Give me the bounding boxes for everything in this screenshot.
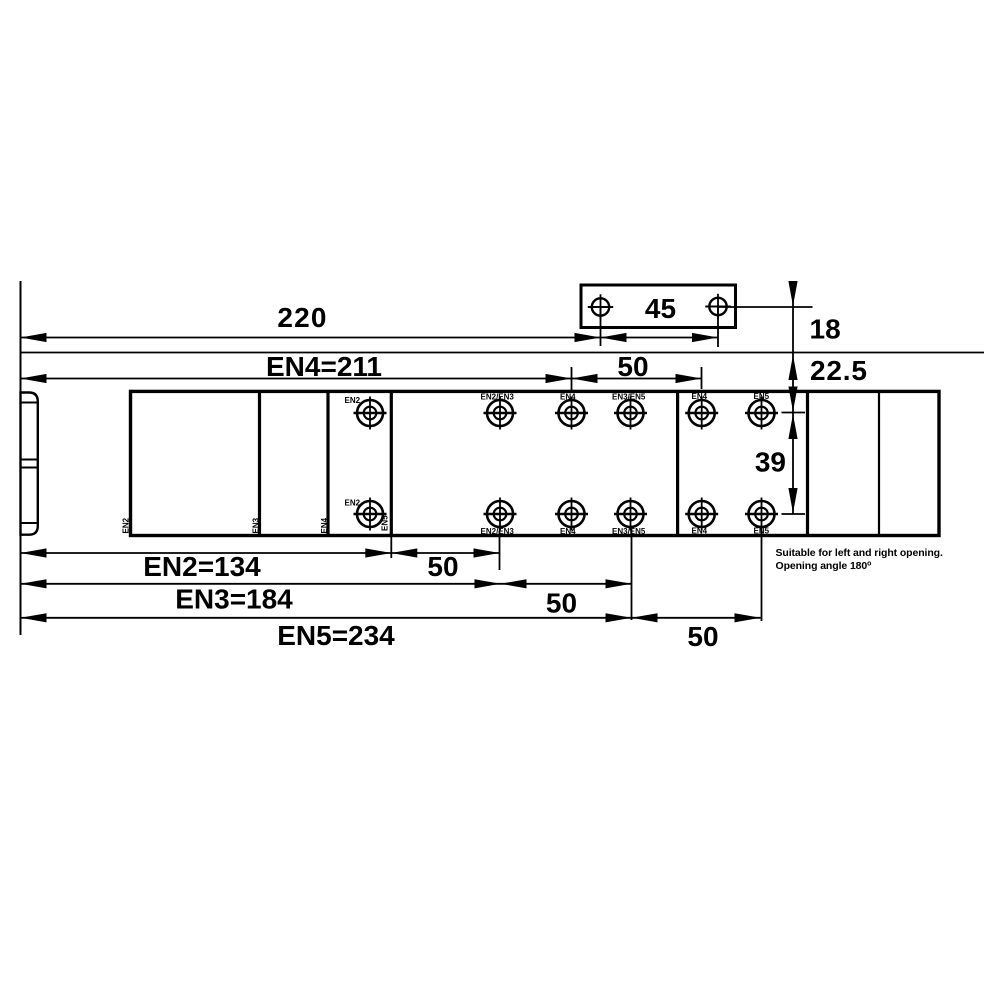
svg-text:EN3: EN3 <box>252 517 261 533</box>
bottom extension line EN5 divider <box>390 535 392 558</box>
tick bottom hole row <box>782 513 806 515</box>
vertical dimension line 18/22.5/39 <box>792 283 794 514</box>
arrow EN5 right <box>606 613 632 622</box>
extension line above plate col EN4b <box>701 367 703 389</box>
svg-text:EN2=134: EN2=134 <box>143 551 261 582</box>
bottom extension line col6 <box>761 529 763 621</box>
svg-text:EN2: EN2 <box>345 499 361 508</box>
label 22.5 <box>810 355 868 386</box>
tick top hole row <box>782 412 806 414</box>
door leaf profile left <box>21 393 38 535</box>
mounting plate outline <box>131 391 940 535</box>
hole col1 top <box>354 397 387 430</box>
label col1 bottom <box>345 499 361 508</box>
svg-text:Suitable for left and right op: Suitable for left and right opening. <box>776 547 943 559</box>
door reference vertical line <box>20 281 22 635</box>
arrow 220 left <box>21 333 47 342</box>
svg-text:EN2/EN3: EN2/EN3 <box>481 527 515 536</box>
hole col4 top <box>614 397 647 430</box>
svg-text:EN4=211: EN4=211 <box>266 351 382 382</box>
hole col5 top <box>685 397 718 430</box>
svg-text:18: 18 <box>810 314 841 345</box>
arrow 50r1 right <box>474 548 500 557</box>
svg-text:50: 50 <box>687 621 718 652</box>
rotated label EN4 <box>320 517 329 533</box>
arrow EN3 left <box>21 579 47 588</box>
hole col3 top <box>555 397 588 430</box>
label EN2=134 <box>143 551 261 582</box>
arrow 220 right <box>575 333 601 342</box>
label 50 top <box>617 351 648 382</box>
svg-text:220: 220 <box>277 302 327 333</box>
varrow down to top tick <box>788 387 797 412</box>
label 50 row2 <box>546 588 577 619</box>
arm bracket plate <box>581 285 736 328</box>
label col6 bottom <box>754 527 770 536</box>
divider right thick <box>806 391 809 535</box>
arrow 50r2 right <box>606 579 632 588</box>
rotated label EN3 <box>252 517 261 533</box>
svg-text:EN5: EN5 <box>754 392 770 401</box>
hole col1 bottom <box>354 498 387 531</box>
svg-text:50: 50 <box>617 351 648 382</box>
label 220 <box>277 302 327 333</box>
divider mid <box>676 391 679 535</box>
varrow down to bottom tick <box>788 488 797 513</box>
arrow 45 right <box>692 333 718 342</box>
hole col6 bottom <box>745 498 778 531</box>
svg-text:EN3/EN5: EN3/EN5 <box>612 527 646 536</box>
svg-text:EN2: EN2 <box>345 396 361 405</box>
svg-text:Opening angle 180o: Opening angle 180o <box>776 560 872 572</box>
arrow 50r3 right <box>735 613 761 622</box>
dimension row B line (EN4=211 / 50) <box>21 378 702 380</box>
divider EN3 <box>258 391 261 535</box>
hole centre extension line to 18 dim <box>718 306 813 308</box>
label 18 <box>810 314 841 345</box>
svg-text:50: 50 <box>427 551 458 582</box>
label col2 top <box>481 393 515 402</box>
hole col4 bottom <box>614 498 647 531</box>
extension line below bracket hole left <box>600 307 602 346</box>
label 50 row1 <box>427 551 458 582</box>
arrow 50r1 left <box>391 548 417 557</box>
label col5 top <box>692 392 708 401</box>
label 45 <box>645 293 676 324</box>
arrow EN2 right <box>365 548 391 557</box>
varrow up to door line <box>788 355 797 380</box>
arrow EN4 right <box>546 374 572 383</box>
svg-text:EN4: EN4 <box>692 392 708 401</box>
note text <box>776 547 943 572</box>
label EN4=211 <box>266 351 382 382</box>
arm bracket hole left <box>588 294 613 319</box>
svg-text:EN3=184: EN3=184 <box>175 584 293 615</box>
hole col5 bottom <box>685 498 718 531</box>
divider right thin <box>878 391 880 535</box>
door top horizontal line <box>21 352 985 354</box>
dimension row A line (220 / 45) <box>21 337 719 339</box>
label col3 bottom <box>560 527 576 536</box>
dimension row 2 line (EN3=184 / 50) <box>21 583 632 585</box>
arrow 50r2 left <box>501 579 527 588</box>
hole col2 bottom <box>484 498 517 531</box>
rotated label EN5 <box>381 515 390 531</box>
varrow down to hole line <box>788 281 797 306</box>
label 50 row3 <box>687 621 718 652</box>
arrow 50top left <box>572 374 598 383</box>
label col1 top <box>345 396 361 405</box>
svg-text:EN2: EN2 <box>122 517 131 533</box>
divider EN5 <box>390 391 393 535</box>
arrow 50top right <box>676 374 702 383</box>
divider EN4 <box>326 391 329 535</box>
arrow EN4 left <box>21 374 47 383</box>
svg-text:EN4: EN4 <box>320 517 329 533</box>
arrow 45 left <box>601 333 627 342</box>
arrow EN5 left <box>21 613 47 622</box>
arrow EN2 left <box>21 548 47 557</box>
svg-text:EN5=234: EN5=234 <box>277 620 395 651</box>
svg-text:45: 45 <box>645 293 676 324</box>
hole col3 bottom <box>555 498 588 531</box>
svg-text:50: 50 <box>546 588 577 619</box>
svg-text:EN4: EN4 <box>560 393 576 402</box>
svg-text:22.5: 22.5 <box>810 355 868 386</box>
label 39 <box>755 447 786 478</box>
bottom extension line col4 <box>631 529 633 620</box>
hole col2 top <box>484 397 517 430</box>
arrow EN3 right <box>475 579 501 588</box>
label col2 bottom <box>481 527 515 536</box>
varrow up from top tick <box>788 414 797 439</box>
extension line below bracket hole right <box>717 307 719 348</box>
label col5 bottom <box>692 527 708 536</box>
label col6 top <box>754 392 770 401</box>
arrow 50r3 left <box>632 613 658 622</box>
bottom extension line col2 <box>499 531 501 570</box>
label col3 top <box>560 393 576 402</box>
label col4 top <box>612 393 646 402</box>
svg-text:39: 39 <box>755 447 786 478</box>
label EN3=184 <box>175 584 293 615</box>
arm bracket hole right <box>705 294 730 319</box>
svg-text:EN4: EN4 <box>560 527 576 536</box>
hole col6 top <box>745 397 778 430</box>
svg-text:EN3/EN5: EN3/EN5 <box>612 393 646 402</box>
svg-text:EN2/EN3: EN2/EN3 <box>481 393 515 402</box>
dimension row 3 line (EN5=234 / 50) <box>21 617 761 619</box>
label EN5=234 <box>277 620 395 651</box>
rotated label EN2 <box>122 517 131 533</box>
extension line above plate col EN4 <box>571 367 573 390</box>
label col4 bottom <box>612 527 646 536</box>
dimension row 1 line (EN2=134 / 50) <box>21 552 500 554</box>
svg-text:EN4: EN4 <box>692 527 708 536</box>
